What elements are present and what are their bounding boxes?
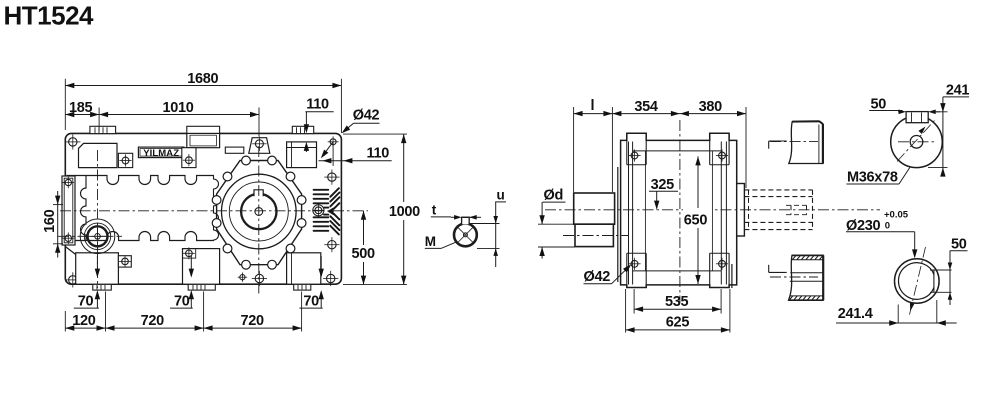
svg-text:50: 50 bbox=[871, 96, 887, 112]
svg-text:241.4: 241.4 bbox=[838, 306, 873, 322]
svg-text:1000: 1000 bbox=[389, 204, 420, 220]
svg-text:u: u bbox=[497, 187, 505, 202]
svg-text:50: 50 bbox=[951, 236, 967, 252]
svg-text:241: 241 bbox=[946, 83, 970, 99]
svg-text:380: 380 bbox=[699, 99, 723, 115]
svg-text:120: 120 bbox=[72, 313, 96, 329]
svg-text:110: 110 bbox=[367, 146, 390, 162]
svg-text:Ø42: Ø42 bbox=[353, 108, 380, 124]
svg-text:160: 160 bbox=[42, 209, 58, 233]
svg-text:M36x78: M36x78 bbox=[847, 169, 898, 185]
svg-text:500: 500 bbox=[352, 246, 376, 262]
svg-text:Ø42: Ø42 bbox=[584, 269, 611, 285]
svg-text:Ød: Ød bbox=[544, 188, 564, 204]
svg-text:535: 535 bbox=[665, 294, 689, 310]
svg-text:0: 0 bbox=[885, 221, 890, 232]
svg-text:M: M bbox=[425, 234, 436, 249]
svg-text:70: 70 bbox=[174, 293, 190, 309]
svg-text:720: 720 bbox=[241, 313, 265, 329]
svg-text:1680: 1680 bbox=[187, 71, 218, 87]
svg-text:+0.05: +0.05 bbox=[884, 210, 909, 221]
svg-text:70: 70 bbox=[78, 293, 94, 309]
svg-text:HT1524: HT1524 bbox=[4, 1, 95, 31]
svg-text:650: 650 bbox=[684, 212, 708, 228]
svg-text:354: 354 bbox=[634, 99, 658, 115]
svg-text:70: 70 bbox=[303, 293, 319, 309]
svg-text:625: 625 bbox=[666, 315, 690, 331]
svg-text:185: 185 bbox=[69, 100, 93, 116]
svg-text:l: l bbox=[591, 98, 595, 114]
svg-text:720: 720 bbox=[141, 313, 165, 329]
svg-text:1010: 1010 bbox=[163, 100, 194, 116]
svg-text:YILMAZ: YILMAZ bbox=[143, 148, 179, 159]
svg-text:325: 325 bbox=[651, 177, 675, 193]
svg-text:110: 110 bbox=[306, 97, 329, 113]
